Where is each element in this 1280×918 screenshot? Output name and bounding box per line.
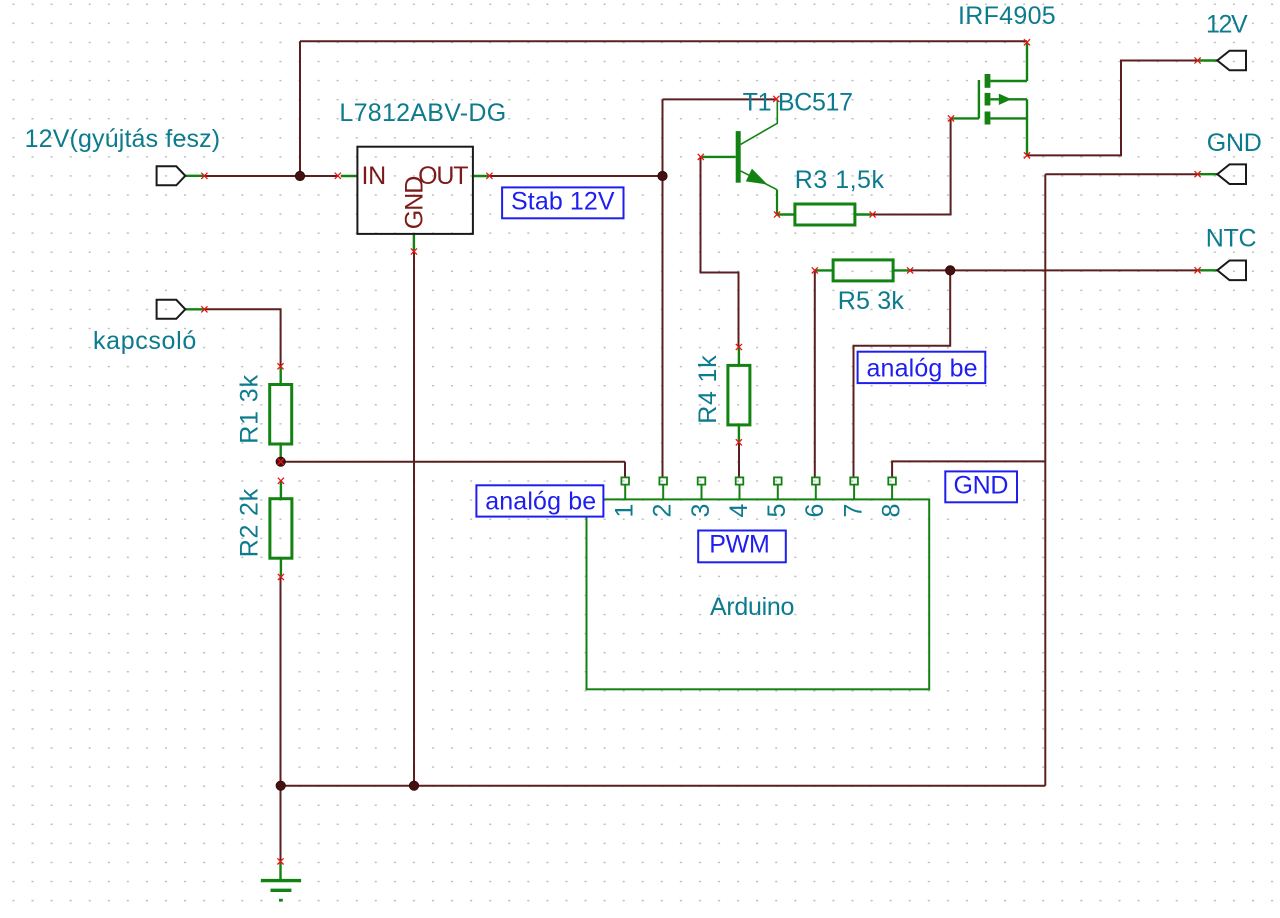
svg-text:R2 2k: R2 2k <box>236 488 264 557</box>
svg-text:R5 3k: R5 3k <box>838 287 905 315</box>
svg-text:12V: 12V <box>1206 11 1248 39</box>
svg-text:Arduino: Arduino <box>710 593 794 621</box>
svg-text:PWM: PWM <box>709 531 769 559</box>
svg-text:R3 1,5k: R3 1,5k <box>795 166 885 194</box>
svg-text:GND: GND <box>400 177 428 230</box>
svg-text:5: 5 <box>763 504 791 518</box>
svg-text:Stab 12V: Stab 12V <box>511 188 615 216</box>
svg-text:IRF4905: IRF4905 <box>958 2 1056 30</box>
svg-text:6: 6 <box>801 504 829 518</box>
svg-text:GND: GND <box>954 472 1009 500</box>
svg-text:1: 1 <box>611 504 639 518</box>
svg-text:kapcsoló: kapcsoló <box>93 327 197 355</box>
svg-text:8: 8 <box>878 504 906 518</box>
svg-text:T1 BC517: T1 BC517 <box>743 89 853 117</box>
svg-text:IN: IN <box>362 162 386 190</box>
svg-text:analóg be: analóg be <box>867 354 978 382</box>
svg-text:4: 4 <box>725 504 753 518</box>
svg-text:2: 2 <box>649 504 677 518</box>
svg-text:3: 3 <box>687 504 715 518</box>
svg-text:NTC: NTC <box>1206 225 1257 253</box>
svg-text:12V(gyújtás fesz): 12V(gyújtás fesz) <box>25 125 221 153</box>
svg-text:GND: GND <box>1207 129 1262 157</box>
svg-text:L7812ABV-DG: L7812ABV-DG <box>339 99 506 127</box>
svg-text:R4 1k: R4 1k <box>694 354 722 423</box>
svg-text:analóg be: analóg be <box>485 488 596 516</box>
svg-text:7: 7 <box>840 504 868 518</box>
svg-text:R1 3k: R1 3k <box>236 374 264 444</box>
